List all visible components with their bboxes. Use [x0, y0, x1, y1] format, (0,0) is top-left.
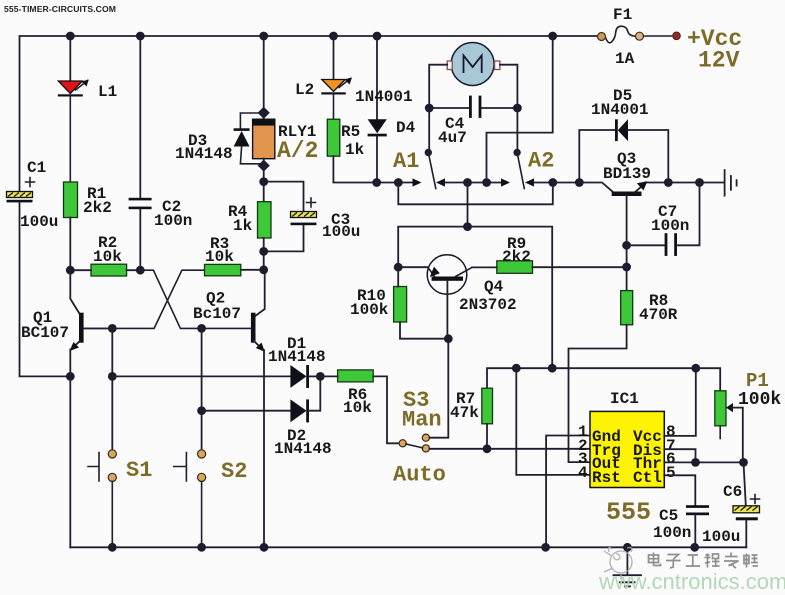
wire: R10 bottom to Q4 base node	[400, 322, 448, 339]
resistor R7	[482, 388, 493, 424]
motor M	[429, 36, 553, 183]
ground (bottom earth symbol)	[614, 547, 642, 586]
node: relay top / D3 junction	[258, 107, 270, 119]
svg-text:1N4001: 1N4001	[355, 88, 413, 106]
svg-text:C6: C6	[723, 483, 742, 501]
switch S1	[88, 450, 116, 548]
wire: R3 right lead	[241, 269, 264, 271]
wire: relay bottom to R4 node	[263, 159, 265, 202]
node: Q3 emitter junction	[664, 178, 673, 187]
svg-text:100n: 100n	[653, 524, 691, 542]
wire: Q1 emitter down to bottom rail corner	[69, 376, 71, 547]
svg-text:Bc107: Bc107	[193, 305, 241, 323]
svg-text:Ctl: Ctl	[633, 469, 662, 487]
svg-text:100k: 100k	[350, 301, 389, 319]
wire: C7 node to R9 node	[626, 245, 628, 290]
transistor Q3	[579, 181, 668, 245]
diode D5	[579, 119, 668, 182]
wire: emitter node to ground	[668, 182, 724, 184]
wire: U bypass under contacts	[398, 183, 553, 205]
wire: contact row second segment with arrow	[487, 178, 510, 186]
node: R7/Trg junction	[483, 444, 492, 453]
node: y226 junction	[463, 222, 472, 231]
node: R3/R4/Q2 junction	[259, 265, 268, 274]
svg-text:4: 4	[578, 464, 588, 482]
wire: pin5 Ctl stub to C5	[664, 475, 695, 505]
wire: R4 bottom to R3 node	[263, 238, 265, 270]
svg-text:555-TIMER-CIRCUITS.COM: 555-TIMER-CIRCUITS.COM	[4, 4, 116, 14]
svg-text:12V: 12V	[698, 48, 740, 74]
capacitor C5	[686, 505, 709, 547]
wire: cross-couple R2 to Q2 base	[140, 270, 251, 328]
potentiometer P1	[715, 391, 743, 463]
node: D1/D2 cathode junction	[316, 372, 325, 381]
svg-text:A2: A2	[528, 149, 554, 174]
svg-text:A/2: A/2	[277, 138, 318, 164]
svg-text:A1: A1	[393, 149, 419, 174]
node: relay bottom junction	[259, 177, 268, 186]
wire: Rst line (pin4)	[516, 368, 590, 475]
resistor R1	[64, 182, 78, 218]
node: Q4 base / Man junction	[444, 334, 453, 343]
wire: R4 node to C3 top	[264, 182, 304, 212]
node: motor-right feed junction	[482, 178, 491, 187]
resistor R9	[497, 261, 533, 274]
node: A2 output junction	[548, 178, 557, 187]
capacitor C3 (electrolytic)	[264, 198, 317, 251]
transistor Q4	[398, 255, 472, 339]
node: C2/R2 junction	[136, 266, 145, 275]
watermark logo sketch	[604, 548, 632, 580]
node: top rail junction dots	[66, 32, 557, 41]
svg-text:1k: 1k	[345, 141, 365, 159]
wire: pin6 Thr row	[664, 461, 743, 463]
transistor Q2	[251, 270, 265, 548]
svg-text:1N4001: 1N4001	[591, 101, 649, 119]
svg-text:100u: 100u	[20, 213, 58, 231]
wire: contact node to Q4 emitter rail	[398, 183, 467, 268]
resistor R5	[327, 119, 340, 156]
svg-text:BD139: BD139	[603, 165, 651, 183]
relay RLY1 coil	[253, 119, 275, 159]
node: relay contact feed junction	[394, 178, 403, 187]
svg-text:1A: 1A	[615, 50, 635, 68]
svg-text:100k: 100k	[738, 390, 781, 410]
resistor R8	[621, 291, 633, 325]
svg-text:1N4148: 1N4148	[268, 348, 326, 366]
svg-text:47k: 47k	[450, 404, 479, 422]
wire: bottom ground rail	[70, 546, 746, 548]
svg-text:D4: D4	[396, 119, 416, 137]
ground (right earth symbol)	[725, 170, 737, 196]
diode D1	[112, 365, 320, 388]
svg-text:R5: R5	[341, 123, 360, 141]
diode D4	[368, 36, 387, 183]
wire: pin8 Vcc stub	[664, 368, 696, 436]
wire: S2 vertical (Q2 base to S2)	[201, 328, 203, 450]
svg-text:555: 555	[606, 498, 651, 527]
wire: R5 bottom to contact row	[333, 156, 376, 182]
node: Thr junctions	[691, 458, 748, 467]
relay contact A1 lever	[425, 149, 436, 189]
node: base-line/D1-line junction	[108, 372, 117, 381]
node: Q1 base / S1 junction	[108, 324, 117, 333]
node: R9 / R8 junction	[622, 263, 631, 272]
svg-text:Auto: Auto	[393, 463, 446, 488]
wire: Vcc feed row y368	[487, 368, 696, 388]
wire: y226 to y368 drop	[468, 227, 553, 369]
svg-text:2k2: 2k2	[83, 199, 112, 217]
node: y368 junctions	[512, 364, 700, 373]
wire: contact row left segment with arrow	[377, 178, 422, 186]
wire: R1 bottom to R2 node	[69, 218, 71, 271]
wire: R8 bottom to IC pin3 Out	[569, 325, 627, 462]
wire: Man contact to Q4 node	[430, 339, 449, 438]
LED L1	[58, 36, 89, 182]
svg-text:1N4148: 1N4148	[175, 145, 233, 163]
node: Q1 emitter junction	[66, 372, 75, 381]
svg-text:1N4148: 1N4148	[274, 440, 332, 458]
relay contact A2 lever	[513, 149, 524, 189]
watermark text CJK	[649, 553, 759, 569]
svg-text:Rst: Rst	[592, 469, 621, 487]
resistor R3	[205, 264, 241, 275]
capacitor C6 (electrolytic)	[733, 462, 760, 547]
svg-text:L1: L1	[98, 83, 117, 101]
svg-text:100n: 100n	[154, 212, 192, 230]
svg-text:2k2: 2k2	[502, 248, 531, 266]
svg-text:100u: 100u	[322, 223, 360, 241]
svg-text:2N3702: 2N3702	[459, 296, 517, 314]
wire: contact A2 right side with arrow	[525, 178, 579, 186]
wire: top Vcc rail	[20, 36, 598, 192]
svg-text:10k: 10k	[343, 399, 372, 417]
IC1 555 body	[590, 411, 664, 487]
wire: Auto contact to IC pin2	[430, 448, 591, 450]
svg-text:Q4: Q4	[484, 278, 504, 296]
switch S2	[174, 450, 206, 548]
node: Q3 collector / C7 junction	[622, 241, 631, 250]
svg-text:S2: S2	[221, 459, 247, 484]
transistor Q1	[70, 270, 113, 376]
svg-text:C1: C1	[27, 159, 46, 177]
LED L2	[321, 36, 352, 119]
node: C3 bottom junction	[259, 247, 268, 256]
wire: pin7 Dis stub	[664, 449, 695, 462]
node: D2 anode junction	[197, 406, 206, 415]
wire: contact A1 right side with arrow	[436, 178, 487, 186]
node: C4 junctions	[425, 104, 522, 113]
svg-text:4u7: 4u7	[438, 129, 467, 147]
wire: relay column from top rail	[263, 36, 265, 119]
svg-text:100u: 100u	[702, 528, 740, 546]
diode D3	[234, 113, 264, 164]
node: R1/R2 junction	[66, 266, 75, 275]
svg-text:10k: 10k	[205, 248, 234, 266]
capacitor C2	[129, 36, 152, 270]
resistor R4	[258, 202, 272, 238]
capacitor C1 (electrolytic)	[7, 178, 35, 203]
svg-text:5: 5	[666, 464, 676, 482]
wire: R7 bottom to Trg line	[486, 424, 488, 449]
wire: S1 vertical (Q1 base to S1)	[111, 328, 113, 450]
svg-text:P1: P1	[746, 370, 769, 392]
wire: R10 top lead	[397, 267, 399, 286]
capacitor C7	[627, 183, 700, 256]
node: Q2 base / S2 junction	[197, 324, 206, 333]
svg-text:C5: C5	[659, 507, 678, 525]
diode D2	[202, 376, 321, 422]
svg-text:Man: Man	[402, 408, 442, 433]
svg-text:L2: L2	[295, 81, 314, 99]
svg-text:S1: S1	[126, 458, 152, 483]
wire: left rail lower segment C1 to corner	[20, 202, 71, 376]
svg-text:www.cntronics.com: www.cntronics.com	[598, 569, 785, 594]
node: Q4 emitter / R10 junction	[394, 263, 403, 272]
resistor R2	[91, 264, 127, 276]
svg-text:BC107: BC107	[21, 324, 69, 342]
node: bottom rail junctions	[108, 543, 699, 552]
node: ground branch junction	[695, 178, 704, 187]
resistor R6	[338, 370, 374, 382]
svg-text:F1: F1	[613, 6, 632, 24]
capacitor C4	[429, 96, 517, 153]
fuse F1	[598, 26, 681, 43]
svg-text:10k: 10k	[93, 248, 122, 266]
wire: Gnd line (pin1)	[546, 436, 590, 548]
resistor R10	[394, 287, 407, 323]
wire: cross-couple R3 to Q1 base	[84, 270, 205, 328]
wire: Q4 collector wire to R9 and R9 to Q3 collector node	[472, 266, 627, 268]
wire: y368 to P1 top	[696, 368, 720, 391]
node: A1 output junction	[463, 178, 472, 187]
wire: R2 leads	[70, 269, 140, 271]
svg-text:IC1: IC1	[610, 390, 639, 408]
switch S3	[399, 434, 429, 452]
node: D4/R5 junction	[372, 178, 381, 187]
svg-text:470R: 470R	[639, 306, 678, 324]
node: relay bottom / D3 junction	[258, 160, 270, 172]
node: Q3 base junction	[575, 178, 584, 187]
svg-text:1k: 1k	[233, 217, 253, 235]
wire: R6 leads and down to S3 pole	[320, 376, 399, 443]
svg-text:100n: 100n	[651, 217, 689, 235]
